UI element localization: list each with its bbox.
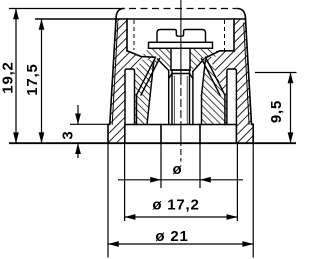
dim 17,2 (125, 216, 238, 218)
recess inner walls (126, 19, 128, 51)
svg-text:17,5: 17,5 (24, 63, 41, 95)
hidden dashed top edge (129, 8, 236, 10)
white slot left skirt gap (125, 69, 135, 125)
top face line (116, 18, 246, 20)
dim 19,2 (15, 9, 17, 144)
white screw column: head, washer, shank, bore (157, 30, 206, 43)
bore walls (171, 70, 173, 125)
skirt gap slot edges right (227, 69, 237, 125)
svg-text:ø: ø (173, 161, 183, 178)
groove bottom left (127, 51, 155, 58)
centerline (180, 0, 182, 77)
groove bottom right (207, 51, 235, 58)
svg-text:9,5: 9,5 (268, 100, 285, 123)
knob body section (hatched silhouette) (108, 19, 253, 143)
white wedge left groove chamfer (127, 51, 141, 57)
cone hatched band right (202, 57, 225, 95)
hidden dashed recess corners (133, 20, 135, 50)
dim 21 (108, 243, 253, 245)
screw head outline (157, 30, 206, 43)
cone hatched band left (137, 57, 160, 95)
cone hatched wing right (under washer) (190, 48, 220, 71)
bottom hole edges (160, 125, 162, 144)
shank (171, 48, 190, 70)
edge relief lines (112, 23, 118, 124)
left outer edge (108, 19, 116, 143)
white top recess (127, 19, 234, 51)
hub chevron left (143, 62, 154, 125)
extension lines below (107, 143, 109, 257)
thread minor lines (174, 76, 187, 125)
cone hatched wing left (under washer) (142, 48, 172, 71)
skirt gap slot edges left (125, 69, 135, 125)
cone diagonals right (206, 57, 225, 95)
white slot left of bore (147, 59, 169, 125)
white slot right of bore (193, 59, 205, 124)
top corner arcs (116, 9, 124, 20)
dim 3 arrows (77, 105, 79, 124)
dim 17,5 (41, 19, 43, 143)
dim 3 ext line (70, 123, 108, 125)
svg-text:ø 17,2: ø 17,2 (152, 197, 199, 214)
outlines (108, 9, 253, 144)
cone diagonals left (137, 57, 156, 95)
inner skirt walls (124, 125, 126, 144)
white slot right skirt gap (227, 69, 237, 125)
dim bore (118, 179, 161, 181)
dim 9,5 ext (255, 72, 297, 74)
hub chevron right (202, 61, 217, 125)
extension top 19,2 (9, 8, 124, 10)
svg-text:3: 3 (59, 130, 76, 139)
bottom line extended (9, 142, 296, 144)
hub outer verticals (136, 95, 138, 125)
extension top 17,5 uses top face line extended (35, 18, 116, 20)
svg-text:ø 21: ø 21 (155, 228, 188, 245)
white bottom band (125, 125, 237, 144)
cavity bottom line (125, 124, 237, 126)
svg-text:19,2: 19,2 (0, 61, 16, 93)
washer (149, 42, 213, 48)
right outer edge (246, 19, 254, 143)
